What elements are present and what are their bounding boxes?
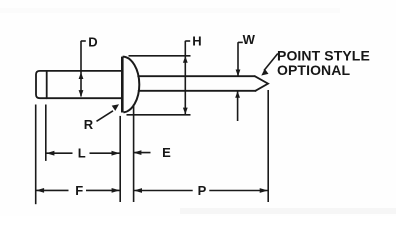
svg-text:OPTIONAL: OPTIONAL [277,62,350,78]
svg-text:R: R [84,117,94,132]
svg-text:D: D [88,35,97,50]
svg-text:H: H [192,34,201,49]
svg-text:P: P [198,183,207,198]
svg-text:F: F [75,183,83,198]
svg-text:W: W [243,32,256,47]
svg-text:E: E [162,145,171,160]
svg-text:L: L [78,146,86,161]
